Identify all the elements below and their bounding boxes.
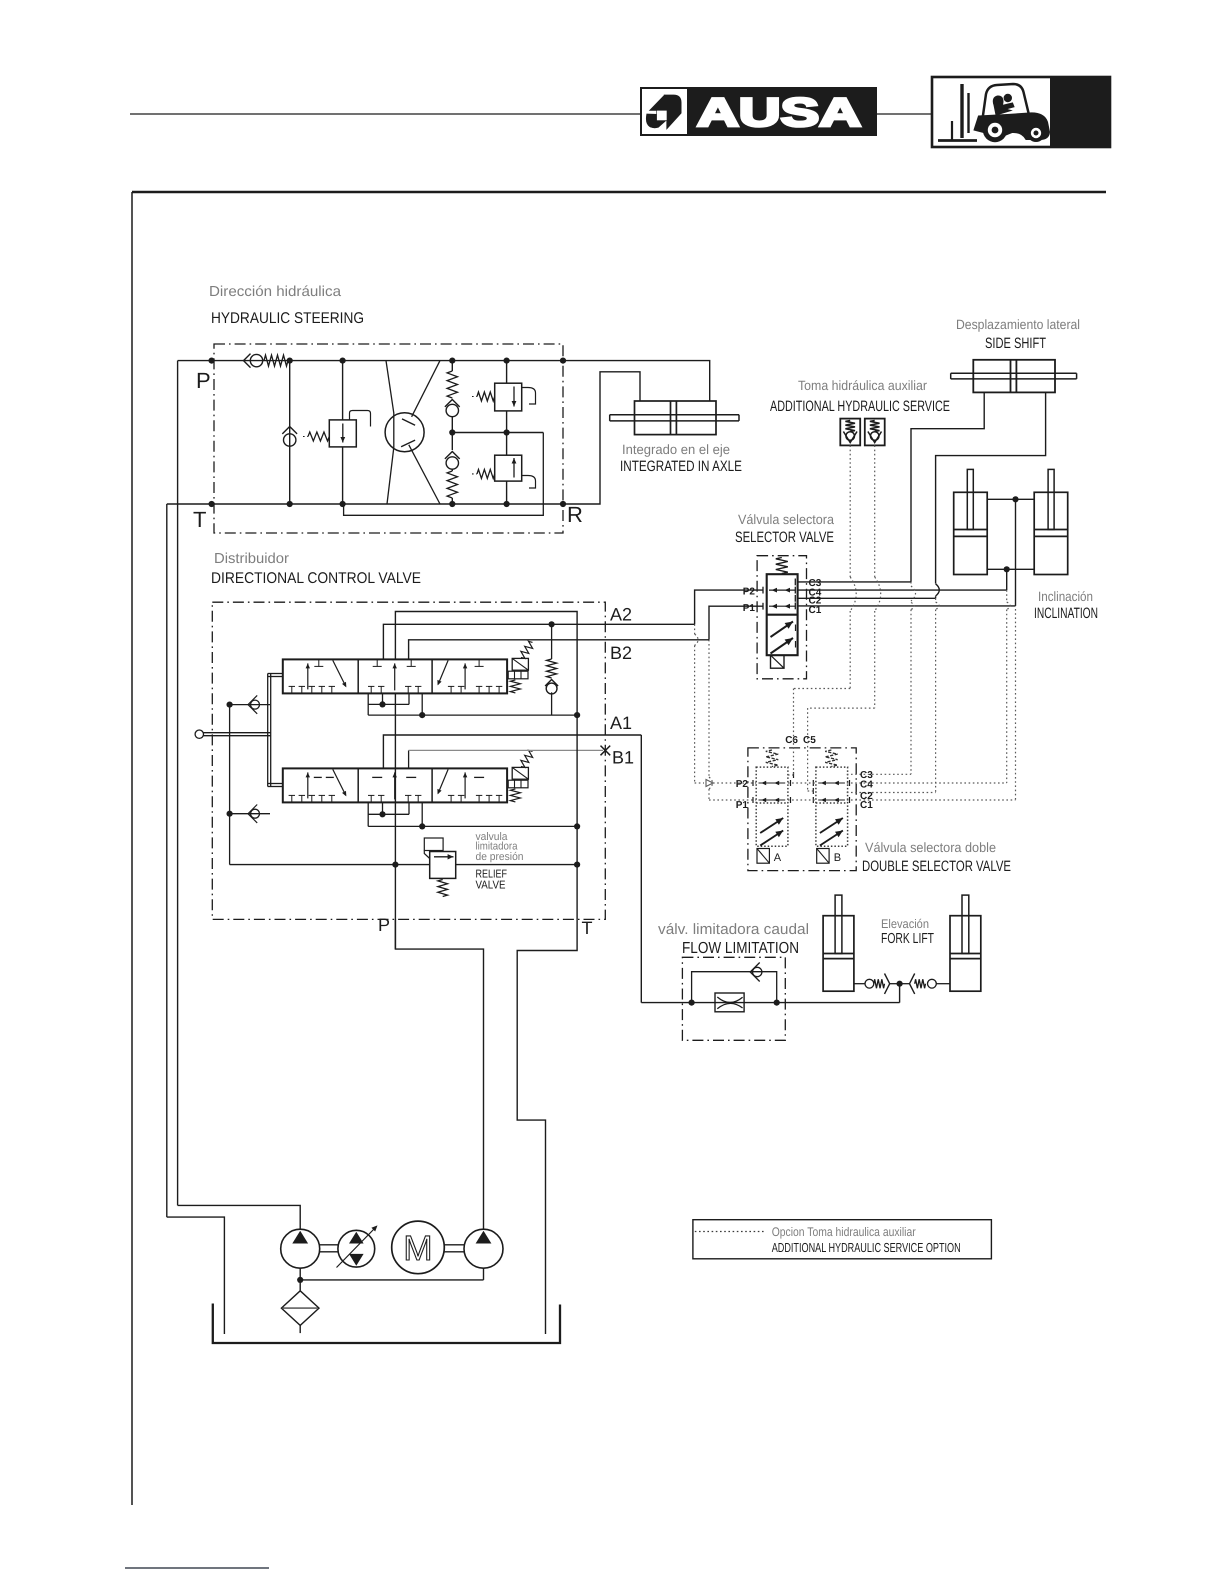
svg-text:P1: P1 — [736, 800, 749, 811]
svg-text:AUSA: AUSA — [697, 91, 861, 135]
svg-text:válv. limitadora caudal: válv. limitadora caudal — [658, 921, 809, 938]
svg-text:FLOW LIMITATION: FLOW LIMITATION — [682, 940, 799, 957]
svg-text:P: P — [378, 915, 390, 935]
svg-text:A2: A2 — [610, 605, 632, 625]
svg-text:P1: P1 — [743, 603, 756, 614]
svg-text:B: B — [834, 852, 841, 864]
svg-text:T: T — [582, 918, 593, 938]
svg-text:A1: A1 — [610, 713, 632, 733]
svg-text:FORK LIFT: FORK LIFT — [881, 931, 934, 947]
svg-text:de presión: de presión — [476, 851, 524, 863]
svg-text:SELECTOR VALVE: SELECTOR VALVE — [735, 529, 834, 546]
svg-text:M: M — [403, 1229, 432, 1268]
svg-text:Válvula selectora: Válvula selectora — [738, 512, 834, 527]
svg-text:INCLINATION: INCLINATION — [1034, 605, 1098, 622]
svg-text:B1: B1 — [612, 748, 634, 768]
svg-text:C5: C5 — [803, 735, 816, 746]
svg-text:Toma hidráulica auxiliar: Toma hidráulica auxiliar — [798, 378, 927, 393]
svg-text:Válvula selectora doble: Válvula selectora doble — [865, 840, 996, 855]
svg-text:R: R — [567, 502, 583, 527]
svg-text:T: T — [193, 507, 206, 532]
svg-text:HYDRAULIC STEERING: HYDRAULIC STEERING — [211, 310, 364, 327]
svg-text:SIDE SHIFT: SIDE SHIFT — [985, 335, 1046, 352]
svg-text:P2: P2 — [736, 779, 749, 790]
svg-text:DOUBLE SELECTOR VALVE: DOUBLE SELECTOR VALVE — [862, 858, 1011, 875]
svg-text:C1: C1 — [860, 800, 873, 811]
svg-text:Inclinación: Inclinación — [1038, 589, 1093, 604]
svg-text:Integrado en el eje: Integrado en el eje — [622, 442, 730, 457]
svg-text:A: A — [774, 852, 782, 864]
svg-text:Elevación: Elevación — [881, 917, 929, 931]
svg-text:Dirección hidráulica: Dirección hidráulica — [209, 284, 342, 300]
svg-text:INTEGRATED IN AXLE: INTEGRATED IN AXLE — [620, 458, 742, 475]
svg-text:VALVE: VALVE — [476, 879, 506, 891]
svg-text:P2: P2 — [743, 587, 756, 598]
svg-text:DIRECTIONAL CONTROL VALVE: DIRECTIONAL CONTROL VALVE — [211, 570, 421, 587]
svg-text:C6: C6 — [785, 735, 798, 746]
svg-text:Distribuidor: Distribuidor — [214, 551, 289, 567]
svg-text:ADDITIONAL HYDRAULIC SERVICE O: ADDITIONAL HYDRAULIC SERVICE OPTION — [772, 1240, 961, 1255]
svg-text:Opcion Toma hidraulica auxilia: Opcion Toma hidraulica auxiliar — [772, 1225, 916, 1239]
svg-text:Desplazamiento lateral: Desplazamiento lateral — [956, 317, 1080, 332]
svg-text:ADDITIONAL HYDRAULIC SERVICE: ADDITIONAL HYDRAULIC SERVICE — [770, 398, 950, 415]
svg-text:P: P — [196, 368, 211, 393]
svg-text:C4: C4 — [860, 780, 873, 791]
svg-text:B2: B2 — [610, 643, 632, 663]
